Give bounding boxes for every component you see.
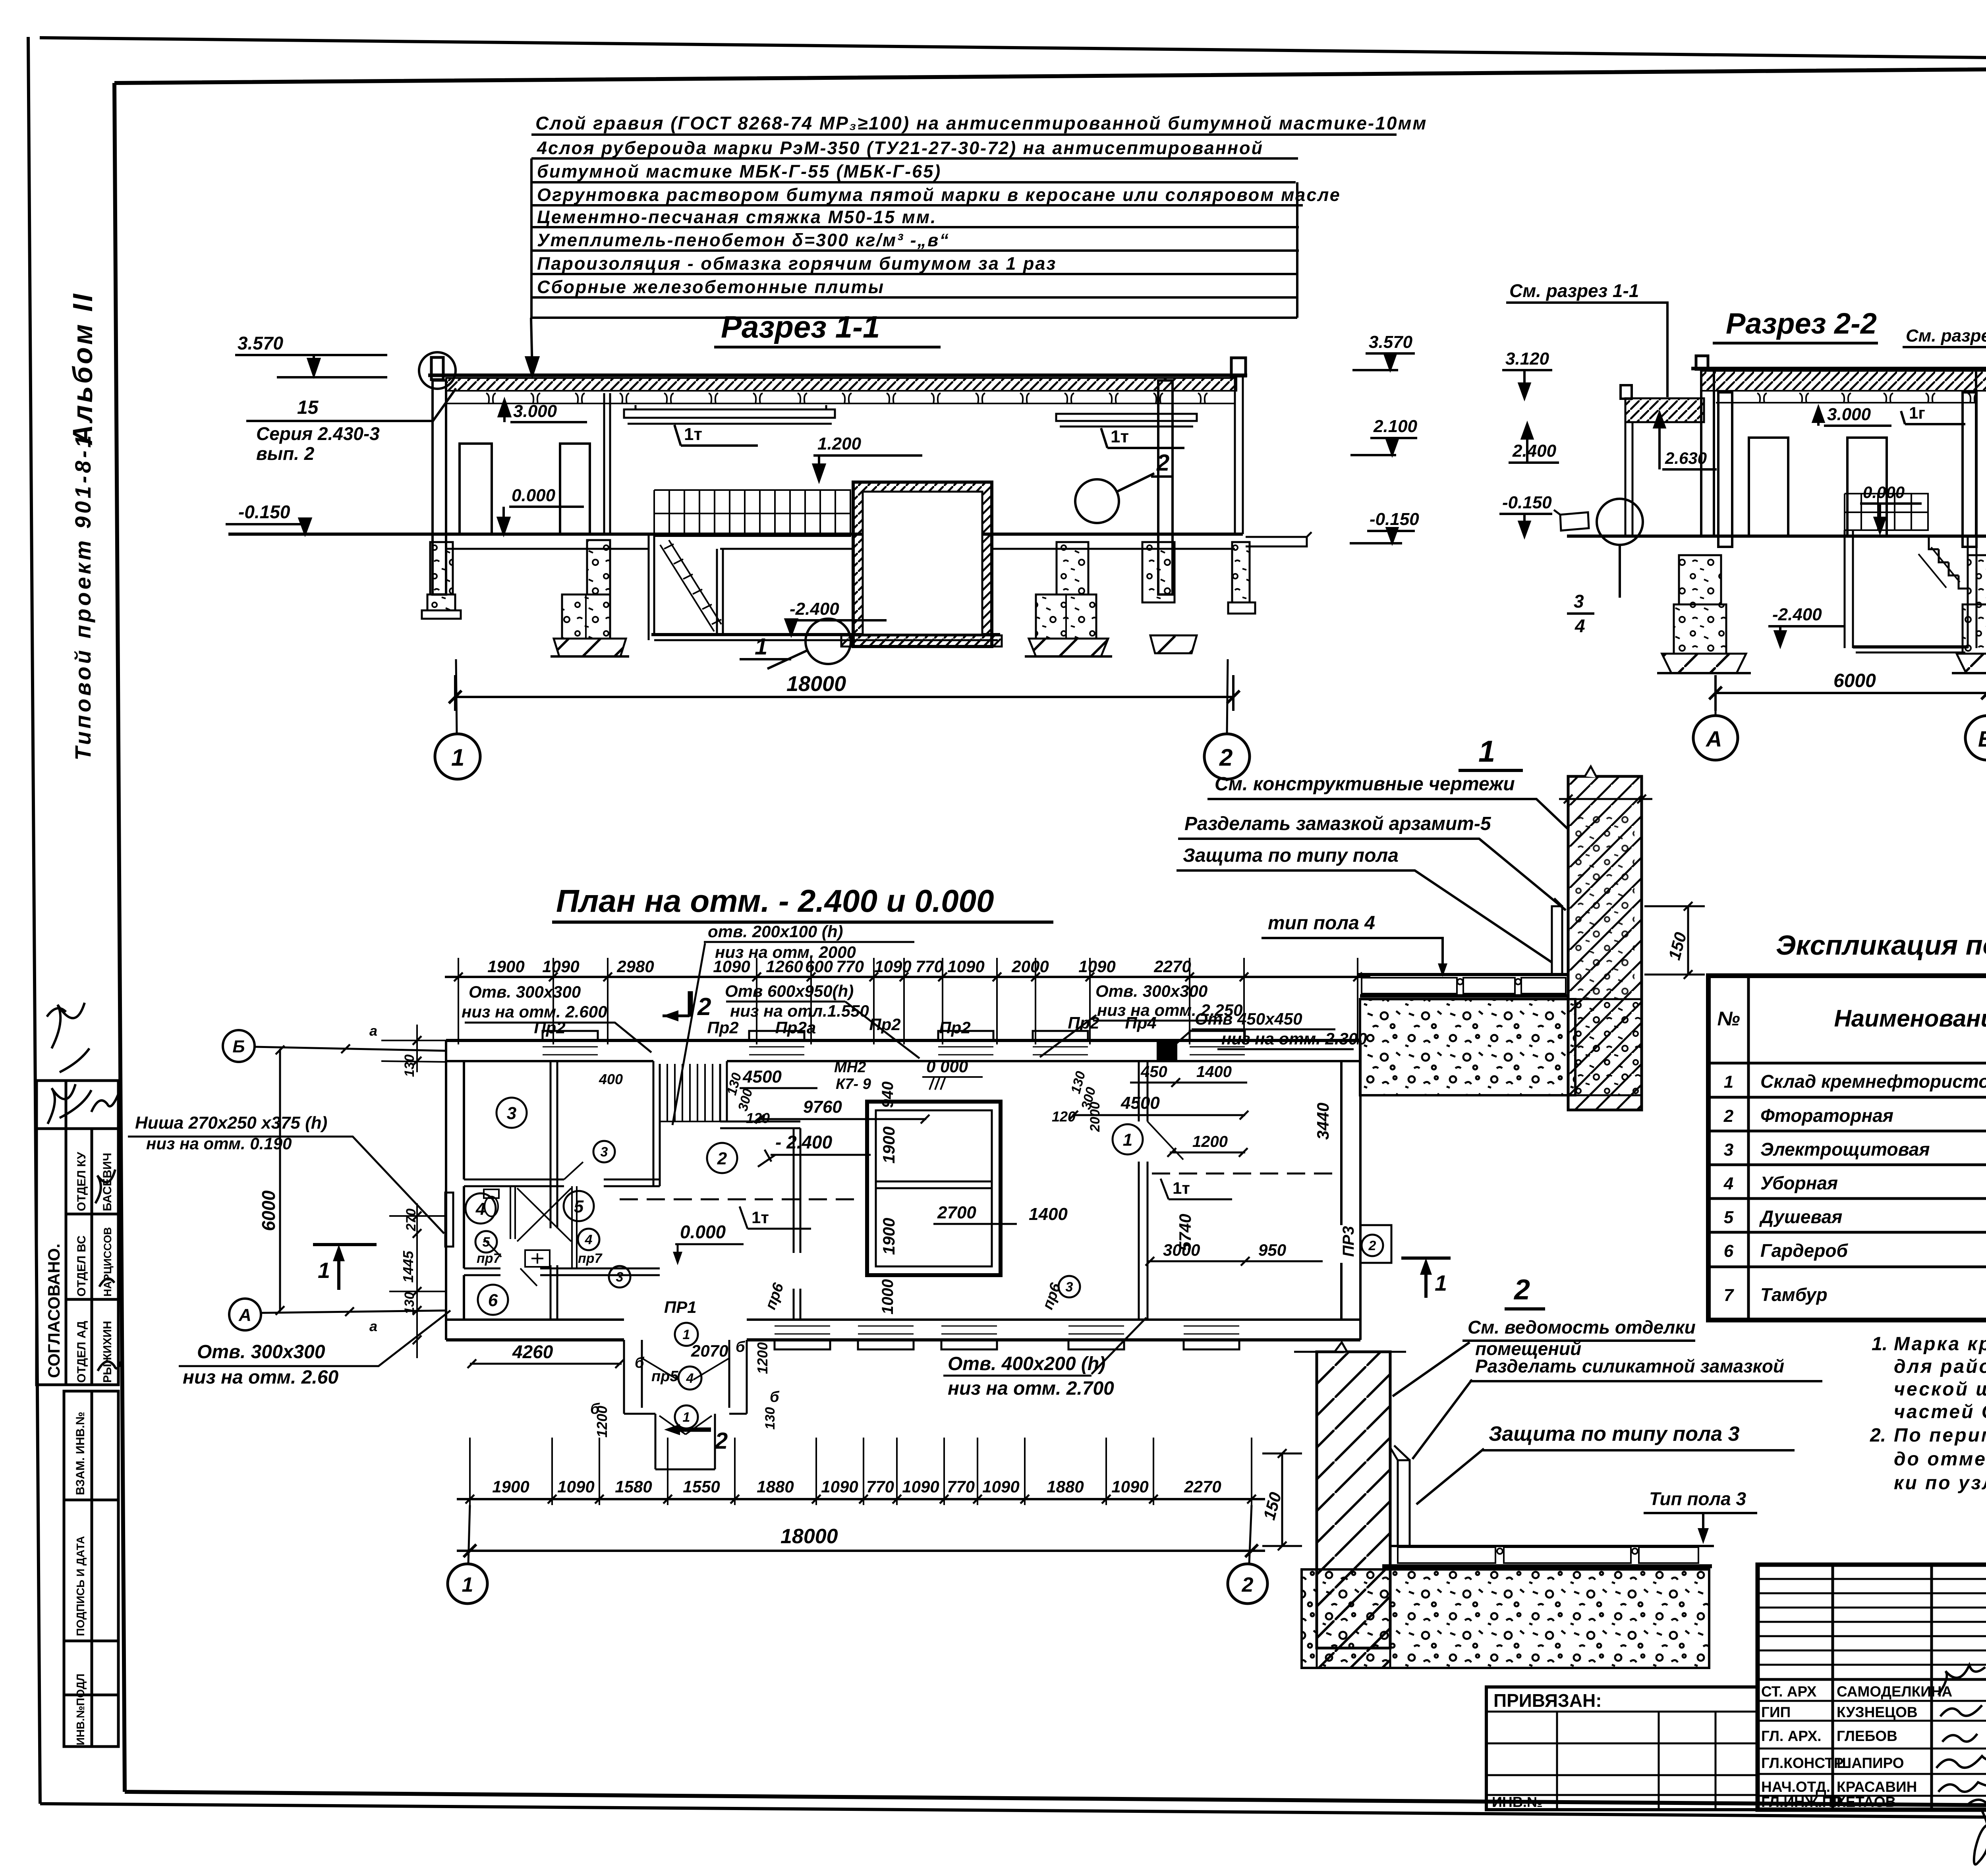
svg-text:Марка кровельной мастики в: Марка кровельной мастики в скобках (см. … bbox=[1894, 1334, 1986, 1355]
svg-text:3440: 3440 bbox=[1314, 1103, 1332, 1140]
svg-text:6: 6 bbox=[488, 1291, 498, 1310]
interior partition wall bbox=[604, 393, 610, 534]
svg-text:4: 4 bbox=[475, 1199, 485, 1219]
node2 dim 150 bbox=[1262, 1453, 1302, 1546]
foundation right pier footing bbox=[1029, 639, 1108, 656]
svg-text:битумной мастике МБК-Г-55 (: битумной мастике МБК-Г-55 (МБК-Г-65) bbox=[537, 161, 941, 181]
column axis 2 bbox=[1158, 380, 1173, 594]
svg-text:Разрез 1-1: Разрез 1-1 bbox=[721, 309, 880, 344]
svg-text:ОТДЕЛ АД: ОТДЕЛ АД bbox=[75, 1321, 88, 1383]
downspout callout circle bbox=[1597, 499, 1643, 545]
svg-text:Типовой проект 901-8-1: Типовой проект 901-8-1 bbox=[70, 432, 95, 760]
svg-text:1: 1 bbox=[1123, 1130, 1132, 1150]
svg-text:2700: 2700 bbox=[937, 1203, 976, 1222]
svg-text:0.000: 0.000 bbox=[1863, 483, 1905, 502]
svg-text:600: 600 bbox=[805, 957, 833, 976]
svg-text:3.000: 3.000 bbox=[1827, 405, 1871, 424]
svg-text:См. разрез 1-1: См. разрез 1-1 bbox=[1509, 280, 1639, 301]
svg-text:130: 130 bbox=[402, 1054, 417, 1077]
svg-text:1090: 1090 bbox=[542, 957, 579, 976]
right exterior wall bbox=[1235, 375, 1243, 534]
svg-text:6000: 6000 bbox=[258, 1190, 279, 1231]
interior wall room3/corridor bbox=[551, 1061, 557, 1320]
svg-text:1: 1 bbox=[451, 744, 464, 771]
foundation 2-2 left footing bbox=[1662, 654, 1746, 673]
top exterior wall bbox=[446, 1039, 1360, 1042]
svg-text:1900: 1900 bbox=[487, 957, 524, 976]
foundation axis1 blocks bbox=[430, 542, 453, 594]
foundation right wall bbox=[1232, 542, 1250, 602]
foundation 2-2 right blocks bbox=[1968, 555, 1986, 604]
svg-text:для районов строительства р: для районов строительства расположенных … bbox=[1894, 1356, 1986, 1377]
svg-text:ПР3: ПР3 bbox=[1340, 1226, 1357, 1257]
svg-text:940: 940 bbox=[879, 1081, 896, 1108]
foundation 2-2 right footing bbox=[1957, 654, 1986, 673]
axis circle 1 plan bbox=[448, 1564, 487, 1604]
roof build-up specification note block bbox=[526, 113, 1427, 375]
svg-text:Отв 600х950(h): Отв 600х950(h) bbox=[725, 982, 854, 1000]
svg-text:1090: 1090 bbox=[557, 1477, 594, 1496]
svg-text:2: 2 bbox=[715, 1428, 728, 1454]
svg-text:2: 2 bbox=[1242, 1573, 1254, 1596]
right wall porch step bbox=[1360, 1225, 1391, 1263]
general notes bbox=[1870, 1334, 1986, 1494]
window sill lines top wall bbox=[543, 1047, 1245, 1055]
svg-text:2: 2 bbox=[1513, 1274, 1530, 1306]
svg-text:3000: 3000 bbox=[1163, 1241, 1200, 1259]
svg-text:4: 4 bbox=[1575, 616, 1585, 636]
svg-text:МН2: МН2 bbox=[834, 1059, 866, 1076]
svg-text:3: 3 bbox=[1724, 1140, 1733, 1160]
axis circle 1 section 1-1 bbox=[435, 734, 480, 779]
tank walls (hatched) bbox=[853, 482, 992, 647]
svg-text:450: 450 bbox=[1140, 1063, 1167, 1081]
svg-text:1.200: 1.200 bbox=[817, 434, 862, 454]
door frame 2 left bay bbox=[560, 444, 590, 534]
entry landing grid bbox=[1845, 494, 1929, 530]
tank in plan outer wall bbox=[867, 1102, 1001, 1275]
detail callout circle 1 bbox=[806, 619, 851, 664]
axis circle А bbox=[1693, 716, 1738, 760]
node2 floor tiles bbox=[1390, 1545, 1714, 1547]
svg-text:КУЗНЕЦОВ: КУЗНЕЦОВ bbox=[1837, 1704, 1918, 1720]
drain pipe right bbox=[1246, 532, 1312, 546]
node2 wall top ref line bbox=[1294, 1351, 1406, 1353]
svg-text:1: 1 bbox=[462, 1573, 473, 1596]
svg-text:Утеплитель-пенобетон δ=300 кг: Утеплитель-пенобетон δ=300 кг/м³ -„в“ bbox=[537, 230, 950, 250]
svg-text:Отв. 300х300: Отв. 300х300 bbox=[469, 982, 581, 1001]
sanitary partition 2 bbox=[572, 1186, 577, 1268]
svg-text:770: 770 bbox=[947, 1477, 975, 1496]
svg-text:15: 15 bbox=[297, 397, 319, 418]
approval table frame (СОГЛАСОВАНО block) bbox=[37, 1081, 118, 1385]
svg-text:низ на отм. 2.60: низ на отм. 2.60 bbox=[183, 1367, 338, 1388]
svg-text:770: 770 bbox=[916, 957, 943, 976]
svg-text:Наименование: Наименование bbox=[1834, 1005, 1986, 1032]
section 2-2 drawing bbox=[1350, 264, 1986, 770]
svg-text:130: 130 bbox=[402, 1292, 417, 1314]
svg-text:Ниша 270х250 х375 (h): Ниша 270х250 х375 (h) bbox=[135, 1113, 327, 1133]
svg-text:А: А bbox=[1705, 726, 1722, 751]
svg-text:Пр2: Пр2 bbox=[869, 1015, 900, 1034]
top wall window lintels bbox=[543, 1031, 598, 1040]
svg-text:2: 2 bbox=[1156, 450, 1169, 476]
svg-text:ВЗАМ. ИНВ.№: ВЗАМ. ИНВ.№ bbox=[74, 1412, 87, 1495]
left parapet cap bbox=[1696, 356, 1708, 369]
svg-text:6: 6 bbox=[1724, 1241, 1734, 1261]
svg-text:-2.400: -2.400 bbox=[1772, 605, 1822, 624]
floor plan drawing bbox=[128, 883, 1451, 1604]
wall corridor/room2 bbox=[794, 1128, 800, 1320]
wall under stair landing bbox=[720, 1121, 800, 1128]
svg-text:18000: 18000 bbox=[780, 1525, 838, 1548]
svg-text:Пр2: Пр2 bbox=[534, 1018, 565, 1037]
svg-text:2070: 2070 bbox=[691, 1341, 728, 1360]
detail node 1 bbox=[1177, 766, 1705, 1110]
svg-text:4: 4 bbox=[1723, 1174, 1733, 1193]
overall dim 18000 plan bbox=[457, 1550, 1265, 1552]
svg-text:1900: 1900 bbox=[879, 1127, 898, 1164]
svg-text:1200: 1200 bbox=[754, 1342, 771, 1374]
svg-text:18000: 18000 bbox=[786, 672, 846, 696]
svg-text:9760: 9760 bbox=[803, 1097, 842, 1117]
svg-text:3: 3 bbox=[1574, 591, 1584, 612]
foundation mid pier footing bbox=[554, 639, 626, 656]
svg-text:1900: 1900 bbox=[492, 1477, 529, 1496]
svg-text:2: 2 bbox=[1723, 1106, 1734, 1126]
svg-text:Пароизоляция - обмазка горячи: Пароизоляция - обмазка горячим битумом з… bbox=[537, 253, 1057, 274]
spec block right vertical bbox=[1296, 182, 1298, 318]
foundation axis2 column bbox=[1142, 542, 1175, 602]
svg-text:1т: 1т bbox=[1173, 1179, 1190, 1197]
section 1-1 drawing bbox=[226, 309, 1312, 779]
node2 wall hatched bbox=[1317, 1352, 1390, 1648]
svg-text:Пр2: Пр2 bbox=[939, 1018, 970, 1037]
door swing room1 bbox=[1148, 1121, 1183, 1160]
svg-text:тип пола 4: тип пола 4 bbox=[1268, 913, 1375, 934]
detail node 2 bbox=[1260, 1274, 1822, 1668]
basement stair flight bbox=[660, 540, 721, 631]
svg-text:1090: 1090 bbox=[1111, 1477, 1148, 1496]
basement floor slab bbox=[651, 633, 1000, 636]
left exterior wall bbox=[446, 1040, 464, 1340]
horizontal wall rooms 4-5|6 bbox=[464, 1268, 660, 1275]
svg-text:Серия 2.430-3: Серия 2.430-3 bbox=[256, 423, 380, 444]
svg-text:1.: 1. bbox=[1872, 1334, 1887, 1355]
stamp outer frame bbox=[1758, 1565, 1986, 1810]
svg-text:1: 1 bbox=[318, 1258, 330, 1283]
svg-text:1г: 1г bbox=[1909, 403, 1925, 422]
signatures scribbles bbox=[1936, 1665, 1986, 1875]
svg-text:НАЧ.ОТД.: НАЧ.ОТД. bbox=[1761, 1779, 1830, 1795]
svg-text:1: 1 bbox=[1724, 1072, 1733, 1092]
node1 concrete base bbox=[1360, 999, 1575, 1095]
svg-text:4: 4 bbox=[686, 1371, 694, 1386]
svg-text:1090: 1090 bbox=[713, 957, 750, 976]
door frame right bbox=[1847, 438, 1887, 536]
tank in plan inner wall bbox=[876, 1110, 992, 1266]
tambour door swings bbox=[642, 1358, 729, 1434]
main roof slab bbox=[1691, 367, 1986, 371]
svg-text:ки по узлу 10 серии 2.43: ки по узлу 10 серии 2.430-3 выпуск 1. bbox=[1894, 1473, 1986, 1494]
svg-text:№: № bbox=[1717, 1007, 1740, 1030]
svg-text:План на отм. - 2.400 и 0.000: План на отм. - 2.400 и 0.000 bbox=[556, 883, 994, 919]
svg-text:2000: 2000 bbox=[1011, 957, 1049, 976]
svg-text:400: 400 bbox=[599, 1071, 623, 1087]
toilet fixture bbox=[485, 1197, 498, 1216]
svg-text:б: б bbox=[635, 1355, 645, 1371]
svg-text:Отв. 300х300: Отв. 300х300 bbox=[1095, 982, 1207, 1000]
svg-text:СОГЛАСОВАНО.: СОГЛАСОВАНО. bbox=[44, 1243, 63, 1378]
svg-text:Экспликация помещений: Экспликация помещений bbox=[1776, 930, 1986, 961]
approval signatures scribble bbox=[47, 1003, 122, 1371]
annex parapet cap bbox=[1621, 385, 1632, 399]
svg-text:1т: 1т bbox=[1111, 427, 1129, 446]
svg-text:ОТДЕЛ ВС: ОТДЕЛ ВС bbox=[75, 1235, 88, 1297]
svg-text:2270: 2270 bbox=[1153, 957, 1191, 976]
svg-text:1090: 1090 bbox=[1078, 957, 1115, 976]
svg-text:Сборные железобетонные плиты: Сборные железобетонные плиты bbox=[537, 277, 885, 297]
svg-text:0.000: 0.000 bbox=[512, 486, 556, 505]
basement right wall bbox=[1968, 536, 1976, 648]
svg-text:5: 5 bbox=[1724, 1208, 1734, 1227]
spec block left vertical bbox=[530, 158, 533, 318]
column axis 1 top circle mark bbox=[419, 352, 456, 389]
svg-text:отв. 200х100 (h): отв. 200х100 (h) bbox=[708, 922, 843, 941]
room number circles bbox=[496, 1098, 527, 1128]
node2 wall below floor hatch overlay bbox=[1317, 1569, 1390, 1668]
node1 wall top break bbox=[1585, 766, 1597, 778]
svg-text:Тип пола 3: Тип пола 3 bbox=[1649, 1488, 1746, 1509]
svg-text:1445: 1445 bbox=[400, 1251, 416, 1283]
svg-text:3.000: 3.000 bbox=[513, 401, 557, 421]
svg-text:2980: 2980 bbox=[616, 957, 654, 976]
svg-text:Б: Б bbox=[1978, 726, 1986, 751]
svg-text:1090: 1090 bbox=[821, 1477, 858, 1496]
svg-text:низ на отм. 2.700: низ на отм. 2.700 bbox=[948, 1378, 1114, 1399]
svg-text:СТ. АРХ: СТ. АРХ bbox=[1761, 1683, 1817, 1700]
svg-text:А: А bbox=[238, 1305, 251, 1325]
interior column left bbox=[1718, 392, 1732, 547]
basement left wall bbox=[1845, 530, 1853, 648]
svg-text:1400: 1400 bbox=[1196, 1063, 1232, 1081]
svg-text:3: 3 bbox=[616, 1270, 624, 1285]
svg-text:Б: Б bbox=[232, 1037, 245, 1056]
svg-text:1090: 1090 bbox=[982, 1477, 1019, 1496]
sanitary partition 1 bbox=[510, 1186, 515, 1239]
tank bottom slab bbox=[841, 635, 1002, 647]
svg-text:1т: 1т bbox=[752, 1208, 769, 1227]
svg-text:4500: 4500 bbox=[742, 1067, 782, 1087]
svg-text:КРАСАВИН: КРАСАВИН bbox=[1837, 1779, 1917, 1795]
svg-text:Защита по типу пола: Защита по типу пола bbox=[1183, 845, 1399, 866]
axis circle 2 plan bbox=[1228, 1564, 1267, 1604]
svg-text:1580: 1580 bbox=[615, 1477, 652, 1496]
door frame 1 left bay bbox=[460, 444, 492, 534]
svg-text:пр7: пр7 bbox=[578, 1251, 603, 1266]
bottom exterior wall bbox=[446, 1318, 1360, 1321]
svg-text:Разделать силикатной замазкой: Разделать силикатной замазкой bbox=[1475, 1356, 1784, 1376]
svg-text:пр5: пр5 bbox=[651, 1368, 678, 1385]
monorail dashed room2 bbox=[620, 1199, 854, 1200]
roof hatched screed band bbox=[446, 378, 1236, 391]
ground line bbox=[1567, 535, 1986, 538]
window sill lines bottom wall bbox=[775, 1326, 1239, 1334]
interior column right bbox=[1963, 392, 1976, 547]
svg-text:б: б bbox=[590, 1401, 600, 1417]
stamp main horizontal lines bbox=[1758, 1632, 1986, 1679]
washbasin fixture bbox=[525, 1250, 550, 1267]
svg-text:1260: 1260 bbox=[766, 957, 803, 976]
svg-text:Отв 450х450: Отв 450х450 bbox=[1195, 1009, 1302, 1028]
svg-text:1900: 1900 bbox=[879, 1218, 898, 1255]
inventory margin table (ВЗАМ.ИНВ / ПОДПИСЬ / ИНВ.№) bbox=[64, 1391, 118, 1747]
svg-text:ГИП: ГИП bbox=[1761, 1704, 1791, 1720]
svg-text:1200: 1200 bbox=[1192, 1133, 1228, 1150]
svg-text:2.: 2. bbox=[1870, 1425, 1886, 1446]
roof slab top line bbox=[428, 374, 1247, 377]
svg-text:1880: 1880 bbox=[1047, 1477, 1084, 1496]
svg-text:Разделать замазкой арзамит-5: Разделать замазкой арзамит-5 bbox=[1184, 813, 1491, 834]
section sight mark 1 right bbox=[1401, 1258, 1451, 1298]
svg-text:ШАПИРО: ШАПИРО bbox=[1837, 1755, 1904, 1771]
wall room2/room1 bbox=[1139, 1061, 1148, 1320]
svg-text:1090: 1090 bbox=[947, 957, 984, 976]
svg-text:0.000: 0.000 bbox=[680, 1222, 726, 1242]
leader from spec block down to roof bbox=[531, 318, 532, 369]
svg-text:3: 3 bbox=[1066, 1280, 1073, 1295]
svg-text:Гардероб: Гардероб bbox=[1760, 1240, 1849, 1261]
svg-text:б: б bbox=[736, 1339, 746, 1355]
axis circle 2 section 1-1 bbox=[1204, 734, 1250, 779]
monorail dashed room1 bbox=[1152, 1173, 1335, 1175]
node2 protection angle bbox=[1398, 1460, 1410, 1546]
svg-text:ГЛ.КОНСТР: ГЛ.КОНСТР bbox=[1761, 1755, 1843, 1771]
svg-text:2: 2 bbox=[1219, 744, 1233, 771]
svg-text:3.570: 3.570 bbox=[1369, 332, 1413, 352]
svg-text:1090: 1090 bbox=[902, 1477, 939, 1496]
svg-text:Склад кремнефтористого натрия: Склад кремнефтористого натрия bbox=[1760, 1071, 1986, 1092]
column axis 1 bbox=[433, 380, 446, 594]
foundation 2-2 left blocks bbox=[1679, 555, 1721, 604]
node2 concrete base bbox=[1302, 1569, 1709, 1668]
svg-text:См. конструктивные чертежи: См. конструктивные чертежи bbox=[1215, 774, 1515, 795]
svg-text:Тамбур: Тамбур bbox=[1760, 1284, 1828, 1305]
niche in left wall bbox=[445, 1193, 453, 1247]
svg-text:3.570: 3.570 bbox=[238, 333, 284, 353]
svg-text:Огрунтовка раствором битума пя: Огрунтовка раствором битума пятой марки … bbox=[537, 185, 1341, 205]
svg-text:5: 5 bbox=[483, 1235, 491, 1250]
svg-text:Отв. 400х200 (h): Отв. 400х200 (h) bbox=[948, 1353, 1105, 1374]
svg-text:1: 1 bbox=[1478, 735, 1495, 768]
svg-text:а: а bbox=[369, 1318, 377, 1334]
svg-text:См. разрез 1-1: См. разрез 1-1 bbox=[1906, 326, 1986, 345]
svg-text:1т: 1т bbox=[684, 425, 702, 444]
tank partition bbox=[876, 1181, 992, 1188]
horizontal wall rooms 3|4-5 bbox=[464, 1179, 660, 1186]
svg-text:Пр2: Пр2 bbox=[1068, 1013, 1099, 1032]
svg-text:1000: 1000 bbox=[879, 1279, 896, 1314]
stair treads bbox=[660, 1064, 727, 1121]
svg-text:Пр2: Пр2 bbox=[707, 1018, 738, 1037]
svg-text:-2.400: -2.400 bbox=[790, 599, 839, 619]
svg-text:Альбом II: Альбом II bbox=[67, 291, 98, 446]
crane beam 1т left bbox=[624, 409, 835, 418]
svg-text:4слоя рубероида марки РэМ-350: 4слоя рубероида марки РэМ-350 (ТУ21-27-3… bbox=[537, 138, 1263, 158]
svg-text:ГЛ.ИНЖ.ПР: ГЛ.ИНЖ.ПР bbox=[1761, 1794, 1843, 1810]
annex wall bbox=[1625, 422, 1632, 536]
basement floor bbox=[1853, 645, 1968, 648]
annex roof slab bbox=[1625, 398, 1704, 422]
basement door frame bbox=[717, 549, 723, 635]
right exterior wall bbox=[1341, 1040, 1360, 1340]
foundation mid pier blocks bbox=[587, 540, 610, 594]
svg-text:5: 5 bbox=[574, 1197, 584, 1216]
stair enclosure walls bbox=[653, 1061, 727, 1186]
svg-text:3.120: 3.120 bbox=[1505, 349, 1549, 369]
spec rule lines bbox=[526, 135, 1397, 375]
svg-text:пр7: пр7 bbox=[477, 1251, 502, 1266]
svg-text:Отв. 300х300: Отв. 300х300 bbox=[197, 1341, 325, 1363]
svg-text:ПР1: ПР1 bbox=[664, 1298, 697, 1316]
svg-text:0 000: 0 000 bbox=[926, 1057, 968, 1076]
axis circle Б plan bbox=[223, 1030, 255, 1062]
downspout outlet left bbox=[1554, 510, 1589, 531]
svg-text:низ на отм. 2.300: низ на отм. 2.300 bbox=[1221, 1029, 1367, 1048]
svg-text:ПОДПИСЬ И ДАТА: ПОДПИСЬ И ДАТА bbox=[74, 1536, 87, 1636]
svg-text:КЕТАОВ: КЕТАОВ bbox=[1837, 1794, 1896, 1810]
svg-text:2.100: 2.100 bbox=[1373, 417, 1418, 436]
svg-text:1: 1 bbox=[1435, 1270, 1447, 1295]
svg-text:Фтораторная: Фтораторная bbox=[1760, 1105, 1893, 1126]
svg-text:Защита по типу пола 3: Защита по типу пола 3 bbox=[1489, 1422, 1740, 1446]
svg-text:120: 120 bbox=[1052, 1108, 1076, 1125]
section sight mark 1 left bbox=[313, 1245, 377, 1290]
svg-text:частей СССР.: частей СССР. bbox=[1894, 1401, 1986, 1422]
svg-text:270: 270 bbox=[404, 1208, 419, 1231]
svg-text:НАРЦИССОВ: НАРЦИССОВ bbox=[102, 1227, 114, 1297]
node2 wall top break bbox=[1335, 1342, 1348, 1353]
svg-text:Пр2а: Пр2а bbox=[775, 1018, 816, 1037]
svg-text:Разрез 2-2: Разрез 2-2 bbox=[1726, 307, 1877, 340]
ground floor slab line bbox=[228, 533, 1243, 536]
section cut mark 2 bottom bbox=[675, 1428, 711, 1432]
plan left dim chain 130/270/1445/130 bbox=[416, 1025, 418, 1358]
svg-text:1: 1 bbox=[683, 1327, 690, 1342]
svg-text:7: 7 bbox=[1724, 1285, 1735, 1305]
section cut mark 2 top bbox=[688, 991, 693, 1017]
axis circle А plan bbox=[229, 1299, 261, 1330]
dark lintel Пр4 bbox=[1158, 1040, 1176, 1061]
ceiling panel ribs bbox=[446, 393, 1235, 403]
right wall parapet cap bbox=[1231, 358, 1246, 376]
main left wall bbox=[1701, 369, 1714, 536]
svg-text:ОТДЕЛ КУ: ОТДЕЛ КУ bbox=[75, 1152, 88, 1211]
title block (stamp) bbox=[1486, 1565, 1986, 1875]
svg-text:1880: 1880 bbox=[757, 1477, 794, 1496]
plan left dim 6000 bbox=[279, 1049, 281, 1311]
shower cubicle diagonal bbox=[517, 1188, 571, 1241]
svg-text:4500: 4500 bbox=[1121, 1093, 1160, 1113]
svg-text:130: 130 bbox=[763, 1407, 778, 1430]
svg-text:Слой гравия (ГОСТ 8268-74 МР₃≥: Слой гравия (ГОСТ 8268-74 МР₃≥100) на ан… bbox=[535, 113, 1427, 133]
column axis 1 parapet cap bbox=[431, 357, 443, 380]
svg-text:К7- 9: К7- 9 bbox=[836, 1076, 871, 1092]
svg-text:2.630: 2.630 bbox=[1665, 449, 1707, 467]
svg-text:ИНВ.№ПОДЛ: ИНВ.№ПОДЛ bbox=[74, 1673, 87, 1745]
svg-text:6000: 6000 bbox=[1833, 670, 1876, 691]
svg-text:1090: 1090 bbox=[874, 957, 911, 976]
